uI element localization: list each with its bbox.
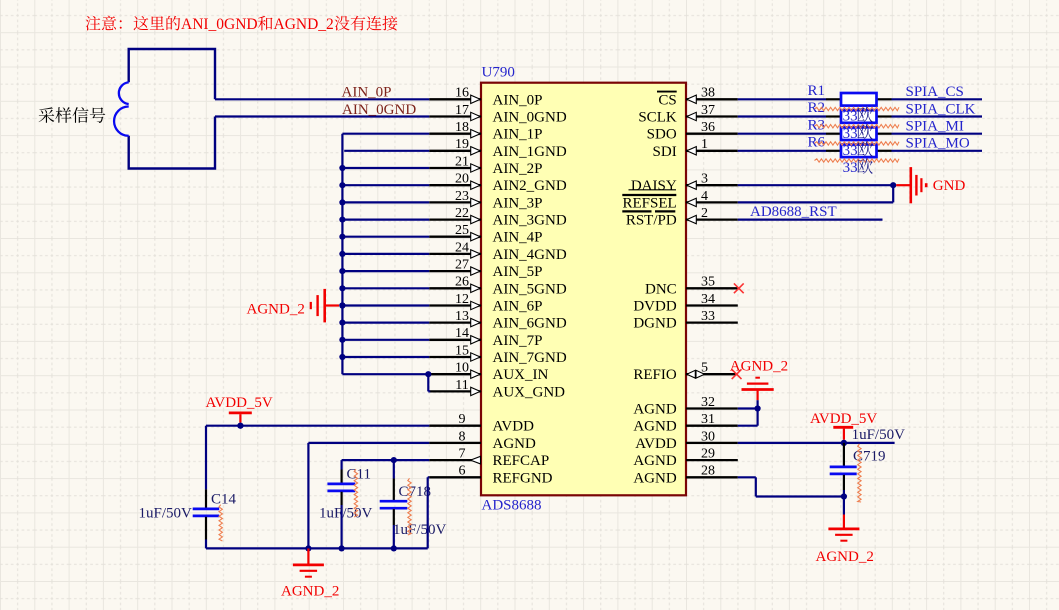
svg-text:GND: GND bbox=[933, 178, 966, 194]
svg-text:AIN_2P: AIN_2P bbox=[493, 161, 543, 177]
svg-text:AGND: AGND bbox=[633, 470, 676, 486]
svg-text:20: 20 bbox=[455, 172, 469, 187]
svg-text:AVDD: AVDD bbox=[493, 419, 535, 435]
svg-text:AIN_7P: AIN_7P bbox=[493, 333, 543, 349]
svg-text:26: 26 bbox=[455, 275, 469, 290]
svg-text:AIN_4P: AIN_4P bbox=[493, 230, 543, 246]
svg-text:13: 13 bbox=[455, 309, 469, 324]
svg-text:SPIA_MI: SPIA_MI bbox=[906, 119, 964, 135]
svg-text:AIN_1P: AIN_1P bbox=[493, 127, 543, 143]
svg-text:33: 33 bbox=[843, 109, 858, 125]
svg-text:24: 24 bbox=[455, 240, 469, 255]
svg-text:REFGND: REFGND bbox=[493, 470, 553, 486]
svg-text:AGND: AGND bbox=[633, 453, 676, 469]
svg-text:REFIO: REFIO bbox=[633, 367, 677, 383]
svg-text:AUX_GND: AUX_GND bbox=[493, 384, 566, 400]
svg-text:2: 2 bbox=[701, 206, 708, 221]
svg-text:33: 33 bbox=[701, 309, 715, 324]
svg-text:AGND_2: AGND_2 bbox=[816, 549, 874, 565]
svg-text:U790: U790 bbox=[482, 64, 515, 80]
svg-text:4: 4 bbox=[701, 189, 708, 204]
svg-text:AVDD_5V: AVDD_5V bbox=[810, 411, 877, 427]
svg-text:31: 31 bbox=[701, 412, 715, 427]
svg-text:AVDD_5V: AVDD_5V bbox=[206, 395, 273, 411]
svg-text:16: 16 bbox=[455, 86, 469, 101]
svg-text:AIN_4GND: AIN_4GND bbox=[493, 247, 567, 263]
svg-text:DAISY: DAISY bbox=[631, 178, 677, 194]
svg-text:AGND: AGND bbox=[493, 436, 536, 452]
svg-text:17: 17 bbox=[455, 103, 469, 118]
svg-text:DVDD: DVDD bbox=[633, 299, 676, 315]
svg-text:AGND: AGND bbox=[633, 402, 676, 418]
svg-text:1uF/50V: 1uF/50V bbox=[852, 427, 906, 443]
svg-text:AVDD: AVDD bbox=[635, 436, 677, 452]
svg-text:37: 37 bbox=[701, 103, 715, 118]
svg-text:33: 33 bbox=[843, 160, 858, 176]
svg-text:AIN_7GND: AIN_7GND bbox=[493, 350, 567, 366]
svg-text:SPIA_CLK: SPIA_CLK bbox=[906, 101, 976, 117]
svg-text:REFSEL: REFSEL bbox=[623, 195, 677, 211]
svg-text:AIN_5GND: AIN_5GND bbox=[493, 281, 567, 297]
svg-text:21: 21 bbox=[455, 154, 469, 169]
svg-text:9: 9 bbox=[459, 412, 466, 427]
svg-text:25: 25 bbox=[455, 223, 469, 238]
svg-text:11: 11 bbox=[455, 378, 468, 393]
svg-text:SCLK: SCLK bbox=[638, 110, 677, 126]
svg-text:AGND: AGND bbox=[633, 419, 676, 435]
svg-text:C11: C11 bbox=[347, 467, 371, 483]
svg-text:AGND_2: AGND_2 bbox=[247, 301, 305, 317]
svg-text:AGND_2: AGND_2 bbox=[281, 584, 339, 600]
svg-text:1uF/50V: 1uF/50V bbox=[319, 506, 373, 522]
svg-text:AIN_5P: AIN_5P bbox=[493, 264, 543, 280]
svg-text:28: 28 bbox=[701, 464, 715, 479]
svg-text:SDO: SDO bbox=[647, 127, 677, 143]
svg-text:ANI_0GND: ANI_0GND bbox=[181, 16, 258, 33]
svg-text:SPIA_MO: SPIA_MO bbox=[906, 136, 970, 152]
svg-text:34: 34 bbox=[701, 292, 715, 307]
svg-text:1uF/50V: 1uF/50V bbox=[393, 522, 447, 538]
svg-text:AIN_0GND: AIN_0GND bbox=[493, 110, 567, 126]
svg-text:C718: C718 bbox=[399, 484, 432, 500]
svg-text:35: 35 bbox=[701, 275, 715, 290]
svg-text:AIN2_GND: AIN2_GND bbox=[493, 178, 567, 194]
svg-text:CS: CS bbox=[658, 92, 676, 108]
svg-text:30: 30 bbox=[701, 429, 715, 444]
svg-text:12: 12 bbox=[455, 292, 469, 307]
svg-text:7: 7 bbox=[459, 447, 466, 462]
svg-text:33: 33 bbox=[843, 143, 858, 159]
svg-text:15: 15 bbox=[455, 343, 469, 358]
svg-text:8: 8 bbox=[459, 429, 466, 444]
svg-text:C14: C14 bbox=[211, 491, 237, 507]
svg-text:AIN_0GND: AIN_0GND bbox=[342, 102, 416, 118]
svg-text:AIN_3P: AIN_3P bbox=[493, 195, 543, 211]
svg-text:AIN_0P: AIN_0P bbox=[493, 92, 543, 108]
svg-text:AIN_6GND: AIN_6GND bbox=[493, 316, 567, 332]
svg-text:AGND_2: AGND_2 bbox=[730, 358, 788, 374]
svg-text:AIN_1GND: AIN_1GND bbox=[493, 144, 567, 160]
svg-text:SDI: SDI bbox=[653, 144, 677, 160]
svg-text:RST/PD: RST/PD bbox=[626, 213, 677, 229]
svg-text:3: 3 bbox=[701, 172, 708, 187]
svg-text:22: 22 bbox=[455, 206, 469, 221]
svg-text:6: 6 bbox=[459, 464, 466, 479]
svg-text:AUX_IN: AUX_IN bbox=[493, 367, 549, 383]
svg-text:1uF/50V: 1uF/50V bbox=[139, 506, 193, 522]
svg-text:DGND: DGND bbox=[633, 316, 676, 332]
svg-text:REFCAP: REFCAP bbox=[493, 453, 550, 469]
svg-text:32: 32 bbox=[701, 395, 715, 410]
svg-text:1: 1 bbox=[701, 137, 708, 152]
svg-text:33: 33 bbox=[843, 126, 858, 142]
svg-text:38: 38 bbox=[701, 86, 715, 101]
svg-text:ADS8688: ADS8688 bbox=[482, 498, 542, 514]
svg-text:23: 23 bbox=[455, 189, 469, 204]
svg-text:AIN_6P: AIN_6P bbox=[493, 299, 543, 315]
svg-text:DNC: DNC bbox=[645, 281, 677, 297]
svg-text:AIN_0P: AIN_0P bbox=[342, 85, 392, 101]
svg-text:14: 14 bbox=[455, 326, 469, 341]
svg-text:36: 36 bbox=[701, 120, 715, 135]
svg-text:AIN_3GND: AIN_3GND bbox=[493, 213, 567, 229]
svg-text:R1: R1 bbox=[807, 83, 825, 99]
svg-text:AD8688_RST: AD8688_RST bbox=[750, 204, 837, 220]
svg-text:AGND_2: AGND_2 bbox=[274, 16, 334, 33]
svg-text:18: 18 bbox=[455, 120, 469, 135]
svg-text:10: 10 bbox=[455, 361, 469, 376]
svg-text:29: 29 bbox=[701, 447, 715, 462]
svg-text:27: 27 bbox=[455, 258, 469, 273]
svg-text:SPIA_CS: SPIA_CS bbox=[906, 84, 964, 100]
svg-text:19: 19 bbox=[455, 137, 469, 152]
